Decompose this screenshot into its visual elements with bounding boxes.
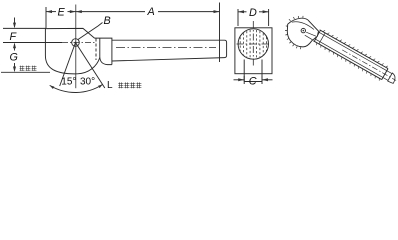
D dimension line	[238, 11, 247, 13]
svg-text:E: E	[58, 6, 66, 18]
svg-text:A: A	[147, 6, 155, 18]
dimension line A	[76, 11, 145, 13]
body rectangle	[235, 28, 272, 74]
G arrow up	[14, 44, 16, 51]
svg-text:G: G	[10, 52, 18, 64]
svg-text:F: F	[10, 31, 18, 43]
arrow E right	[70, 10, 76, 13]
stem right	[261, 60, 263, 82]
arrow E left	[46, 10, 52, 13]
C extension right	[261, 76, 263, 84]
G bottom line	[1, 71, 50, 73]
3d grip outer top	[320, 30, 388, 69]
F/G middle line	[3, 42, 62, 44]
knurl pattern	[240, 30, 266, 58]
F arrow top (down)	[14, 18, 16, 28]
svg-text:30°: 30°	[80, 77, 95, 88]
stem left	[243, 60, 245, 82]
D extension right	[268, 9, 270, 26]
G arrow down	[14, 63, 16, 71]
3d pivot hole	[301, 28, 305, 32]
arrow A right	[214, 10, 220, 13]
head outline	[45, 28, 99, 73]
svg-text:L: L	[107, 80, 113, 91]
svg-text:D: D	[249, 7, 257, 19]
D extension left	[237, 9, 239, 26]
arrow D left	[238, 10, 244, 13]
hidden line head/collar	[95, 39, 97, 61]
stem bottom	[244, 81, 262, 83]
pivot vertical centerline	[75, 5, 77, 89]
svg-text:B: B	[104, 15, 111, 27]
front view horizontal centerline	[237, 43, 271, 45]
collar	[95, 38, 112, 65]
3d head outline	[287, 18, 318, 47]
line 15deg	[60, 43, 76, 87]
arc arrow right	[98, 84, 103, 88]
pivot centerline horizontal	[62, 42, 95, 44]
3d hub to tube lines	[305, 32, 316, 40]
3d grip sleeve end	[382, 69, 388, 80]
extension line A right	[219, 3, 221, 63]
leader B to pivot	[78, 23, 103, 40]
3d head inner edge	[292, 22, 314, 30]
C dimension line + outside arrows	[234, 79, 245, 81]
label locking range	[118, 82, 141, 88]
pivot circle	[72, 39, 80, 47]
arrow A left	[76, 10, 82, 13]
arc arrow left	[50, 85, 55, 89]
3d grip inner bottom	[315, 39, 389, 81]
grip outline	[112, 40, 227, 61]
3d grip inner top	[318, 32, 392, 74]
3d grip outer bottom	[313, 41, 381, 80]
knurled circle	[238, 29, 268, 59]
label approx value	[20, 66, 37, 71]
F top line	[3, 27, 46, 29]
grip centerline	[116, 46, 216, 48]
svg-text:C: C	[249, 76, 257, 88]
arrow D right	[263, 10, 269, 13]
angle arc	[50, 84, 103, 92]
3d grip axis centerline	[342, 50, 396, 81]
3d grip end cap	[388, 73, 395, 83]
front view vertical centerline	[252, 21, 254, 67]
3d grip collar ring	[314, 30, 320, 41]
C extension left	[243, 76, 245, 84]
3d grip knurl ticks	[317, 30, 388, 80]
3d head hatch	[285, 16, 303, 49]
line right 39deg	[76, 43, 105, 89]
dimension line E	[46, 11, 56, 13]
svg-text:15°: 15°	[61, 77, 76, 88]
extension line E left	[45, 7, 47, 28]
